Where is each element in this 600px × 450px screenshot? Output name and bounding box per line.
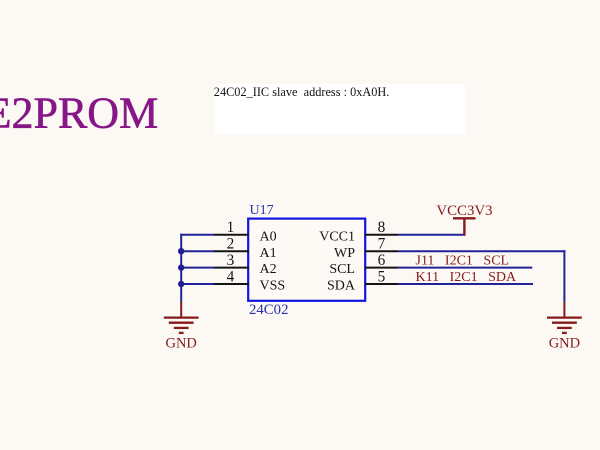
wire pin5 SDA bbox=[398, 283, 533, 285]
wire pin8 to VCC bbox=[398, 234, 466, 236]
pin 8 VCC1: stub bbox=[319, 219, 398, 244]
ground symbol left bbox=[164, 318, 199, 333]
svg-text:7: 7 bbox=[378, 236, 386, 253]
svg-text:WP: WP bbox=[334, 246, 355, 261]
svg-text:VSS: VSS bbox=[260, 279, 286, 294]
wire pin6 SCL bbox=[398, 267, 532, 269]
wire VCC riser (red) bbox=[463, 219, 465, 236]
svg-text:3: 3 bbox=[227, 252, 235, 269]
svg-text:1: 1 bbox=[227, 219, 235, 236]
svg-text:J11 I2C1 SCL: J11 I2C1 SCL bbox=[416, 253, 510, 268]
svg-text:A1: A1 bbox=[260, 246, 277, 261]
svg-text:24C02: 24C02 bbox=[249, 302, 288, 318]
wire right bus to ground (red) bbox=[563, 302, 565, 318]
svg-text:GND: GND bbox=[165, 336, 196, 352]
pin 4 VSS: stub bbox=[214, 269, 285, 294]
svg-text:VCC1: VCC1 bbox=[319, 229, 355, 244]
svg-text:SCL: SCL bbox=[329, 262, 355, 277]
svg-text:SDA: SDA bbox=[327, 279, 356, 294]
junction node pin3/bus bbox=[178, 264, 184, 270]
wire right bus vertical bbox=[563, 250, 565, 301]
svg-text:2: 2 bbox=[227, 236, 235, 253]
svg-text:U17: U17 bbox=[250, 203, 274, 218]
pin 3 A2: stub bbox=[214, 252, 277, 277]
IC U17 body 24C02 bbox=[248, 219, 365, 301]
svg-text:24C02_IIC slave address : 0xA: 24C02_IIC slave address : 0xA0H. bbox=[214, 85, 390, 99]
note text frame bbox=[215, 84, 466, 135]
wire pin3 to bus bbox=[180, 267, 214, 269]
svg-text:E2PROM: E2PROM bbox=[0, 88, 158, 137]
junction node pin2/bus bbox=[178, 248, 184, 254]
pin 6 SCL: stub bbox=[329, 252, 398, 277]
svg-text:GND: GND bbox=[549, 336, 580, 352]
wire pin7 WP to right bus bbox=[398, 250, 566, 252]
wire pin4 to bus bbox=[180, 283, 214, 285]
ground symbol right bbox=[547, 318, 582, 333]
wire pin1 to bus bbox=[180, 234, 214, 236]
pin 2 A1: stub bbox=[214, 236, 277, 261]
wire pin2 to bus bbox=[180, 250, 214, 252]
power symbol VCC3V3 bar bbox=[453, 217, 476, 219]
svg-text:A0: A0 bbox=[260, 229, 277, 244]
svg-text:6: 6 bbox=[378, 252, 386, 269]
svg-text:8: 8 bbox=[378, 219, 386, 236]
pin 1 A0: stub bbox=[214, 219, 277, 244]
svg-text:4: 4 bbox=[227, 269, 235, 286]
wire left bus to ground (red) bbox=[180, 302, 182, 318]
svg-text:VCC3V3: VCC3V3 bbox=[436, 203, 492, 219]
pin 5 SDA: stub bbox=[327, 269, 398, 294]
junction node pin4/bus bbox=[178, 281, 184, 287]
svg-text:K11 I2C1 SDA: K11 I2C1 SDA bbox=[416, 270, 517, 285]
svg-text:A2: A2 bbox=[260, 262, 277, 277]
pin 7 WP: stub bbox=[334, 236, 398, 261]
svg-text:5: 5 bbox=[378, 269, 386, 286]
wire left bus vertical bbox=[180, 234, 182, 302]
